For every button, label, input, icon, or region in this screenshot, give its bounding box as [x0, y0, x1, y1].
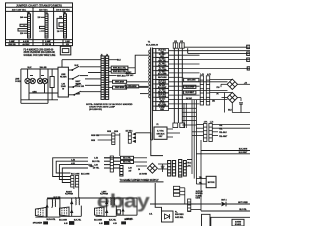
right edge terminations	[247, 58, 250, 61]
wires to motor	[196, 179, 206, 184]
svg-text:(SOLENOID): (SOLENOID)	[89, 109, 102, 111]
relay contact boxes	[174, 186, 185, 204]
svg-text:C-54: C-54	[71, 158, 75, 161]
svg-text:FILTER: FILTER	[60, 77, 67, 79]
top right wire 2	[188, 52, 250, 54]
svg-text:BLK-YEL: BLK-YEL	[239, 209, 246, 211]
pins left of 5V row	[120, 166, 123, 177]
svg-text:94-0-3296-00: 94-0-3296-00	[146, 44, 159, 47]
svg-text:WHT-BLK: WHT-BLK	[117, 75, 126, 77]
ladder verticals	[182, 100, 201, 211]
svg-text:1/8 YEL: 1/8 YEL	[93, 168, 100, 170]
svg-text:32V SB: 32V SB	[45, 44, 52, 46]
svg-text:BLK-GRN: BLK-GRN	[71, 173, 80, 175]
svg-text:MOT B RED: MOT B RED	[238, 202, 248, 204]
svg-text:CHART FOR 25V/6 LAMP: CHART FOR 25V/6 LAMP	[89, 106, 116, 109]
bridge wires	[210, 79, 250, 112]
svg-text:BLK: BLK	[117, 60, 122, 62]
svg-text:GRN: GRN	[32, 91, 37, 93]
svg-text:4-20: 4-20	[71, 162, 75, 165]
svg-text:GRN: GRN	[107, 131, 112, 133]
5V row labels	[121, 156, 134, 159]
svg-text:BLK-R-YEL: BLK-R-YEL	[47, 219, 56, 221]
svg-text:25V/6 VERSION 240-12345-00: 25V/6 VERSION 240-12345-00	[24, 51, 56, 54]
svg-text:GRN: GRN	[90, 166, 95, 168]
svg-text:BLK-GRN: BLK-GRN	[239, 149, 248, 151]
svg-text:LOCK SW: LOCK SW	[76, 86, 85, 88]
svg-text:8 AM: 8 AM	[65, 40, 70, 43]
wires from J5 to right edge	[192, 125, 250, 136]
fuse block columns	[200, 76, 203, 105]
svg-text:181: 181	[212, 101, 215, 103]
svg-text:—: —	[23, 24, 25, 26]
svg-text:A-20: A-20	[64, 222, 68, 225]
filter capacitor C2	[161, 166, 165, 168]
svg-text:110: 110	[57, 31, 60, 33]
svg-text:BLK-GRN: BLK-GRN	[81, 173, 90, 175]
svg-text:BLK-YEL: BLK-YEL	[92, 161, 101, 163]
connector J10	[112, 133, 115, 145]
svg-text:WHT-BLK-YEL: WHT-BLK-YEL	[113, 67, 127, 69]
svg-text:WHT-BRN: WHT-BRN	[115, 81, 125, 83]
svg-text:BLU-YEL: BLU-YEL	[123, 162, 132, 164]
svg-text:F8: F8	[216, 94, 218, 96]
svg-text:BOARD: BOARD	[235, 223, 242, 226]
svg-text:C-54: C-54	[94, 157, 98, 160]
svg-text:8 AMP: 8 AMP	[45, 40, 51, 43]
on/off and interlock switches	[68, 66, 101, 95]
svg-text:24 KOHM: 24 KOHM	[139, 173, 147, 176]
svg-text:4-P1: 4-P1	[207, 73, 211, 76]
svg-text:YEL: YEL	[199, 182, 202, 184]
bridge rectifier BR1	[227, 79, 237, 89]
svg-text:BLU-YEL: BLU-YEL	[123, 158, 132, 160]
svg-text:BLU-YEL: BLU-YEL	[124, 219, 131, 221]
svg-text:240 / 220 VAC: 240 / 220 VAC	[12, 9, 27, 12]
motor box	[206, 176, 216, 187]
low tap wires	[151, 129, 180, 140]
svg-text:F1-4 MARKED 250-12995-00: F1-4 MARKED 250-12995-00	[24, 48, 55, 51]
svg-text:120: 120	[38, 17, 41, 19]
connector columns right of BR3	[168, 161, 171, 177]
bridge rectifier BR3	[147, 163, 157, 173]
fuse detail box	[60, 46, 71, 55]
svg-text:100: 100	[59, 17, 62, 19]
RIGHT FLIPPER circuit	[60, 198, 82, 216]
svg-text:1/4A SB: 1/4A SB	[39, 66, 47, 69]
top right wire 1	[184, 46, 250, 48]
motor drive row	[150, 204, 250, 211]
svg-text:BLK: BLK	[75, 65, 80, 67]
flipper connector	[71, 176, 74, 188]
svg-text:4-20: 4-20	[113, 222, 116, 225]
transformer primary winding	[149, 50, 151, 98]
right wires to edge	[187, 151, 250, 160]
svg-text:SCHEM. FOR 120V 60HZ LINE: SCHEM. FOR 120V 60HZ LINE	[24, 55, 56, 57]
svg-text:5.7 VAC: 5.7 VAC	[157, 130, 164, 133]
LEFT FLIPPER circuit	[95, 198, 117, 216]
svg-text:115 VAC: 115 VAC	[126, 74, 134, 77]
AC line input top wire	[21, 69, 58, 103]
svg-text:BLU-GRN: BLU-GRN	[186, 87, 195, 89]
svg-text:WHT-BRN: WHT-BRN	[115, 87, 125, 89]
line cord plug circles	[25, 69, 48, 84]
jumper chart table	[6, 3, 73, 46]
transformer secondary tap strip	[153, 49, 156, 111]
connector J9	[110, 156, 113, 172]
svg-text:CORD: CORD	[15, 81, 21, 83]
svg-text:FLIPPER: FLIPPER	[100, 194, 109, 196]
svg-text:F10: F10	[216, 87, 219, 89]
svg-text:GRN: GRN	[114, 131, 119, 133]
svg-text:0: 0	[40, 31, 41, 33]
svg-text:240: 240	[20, 16, 23, 19]
svg-text:A-20: A-20	[99, 222, 103, 225]
svg-text:4A 250V: 4A 250V	[23, 43, 31, 46]
svg-text:100 & 110 VAC: 100 & 110 VAC	[56, 9, 70, 12]
svg-text:F1: F1	[156, 124, 158, 126]
bottom right cabinet boxes	[202, 214, 251, 226]
5V row wires	[134, 158, 168, 172]
svg-text:YEL-WHT: YEL-WHT	[219, 136, 228, 138]
svg-text:MOT A: MOT A	[221, 199, 227, 202]
svg-text:GRY-BLK: GRY-BLK	[156, 133, 165, 135]
svg-text:BLU-GRN: BLU-GRN	[94, 219, 103, 221]
stepped wire to bottom	[136, 133, 163, 156]
svg-text:4-P1: 4-P1	[204, 121, 208, 124]
wire to rectifier box	[155, 183, 161, 211]
svg-text:BLK-YEL: BLK-YEL	[74, 220, 81, 222]
svg-text:BLU-GRN: BLU-GRN	[59, 219, 68, 221]
svg-text:+12: +12	[244, 82, 247, 84]
speaker cluster	[35, 207, 46, 217]
transformer low tap box	[154, 127, 167, 139]
bridge rectifier BR2	[227, 92, 237, 102]
svg-text:C.B.: C.B.	[149, 214, 153, 216]
svg-text:FLIPPER: FLIPPER	[65, 194, 74, 196]
svg-text:WHT-BRN: WHT-BRN	[158, 77, 167, 79]
bottom connector of bus	[173, 123, 185, 128]
wires to J1	[62, 60, 101, 86]
vertical bus wires from J12/J13	[174, 48, 182, 123]
transformer tap labels	[156, 49, 169, 53]
motor diode D20	[222, 202, 227, 207]
svg-text:0 VAC: 0 VAC	[126, 71, 132, 74]
svg-text:4-20: 4-20	[94, 163, 98, 166]
cluster bus wire	[47, 197, 137, 199]
svg-text:00: 00	[62, 89, 64, 91]
transformer T1 core	[151, 48, 153, 141]
svg-text:NOTE: JUMPER FOR 13 VAC/6VDC M: NOTE: JUMPER FOR 13 VAC/6VDC MARKED	[86, 103, 133, 106]
svg-text:GRY-GRN: GRY-GRN	[187, 80, 196, 82]
svg-text:BLK: BLK	[28, 67, 33, 69]
svg-text:120 VAC: 120 VAC	[39, 9, 48, 12]
secondary distribution wires	[169, 51, 251, 109]
nested wire loops	[53, 158, 120, 183]
svg-text:4-20: 4-20	[128, 166, 131, 169]
svg-text:SPEAKER: SPEAKER	[33, 222, 43, 225]
svg-text:4 A SB: 4 A SB	[23, 40, 29, 43]
rectifier box	[162, 211, 174, 222]
svg-text:GRN-BRN: GRN-BRN	[127, 86, 137, 88]
svg-text:24 VAC: 24 VAC	[186, 97, 193, 100]
primary input stepped wire	[126, 55, 149, 93]
svg-text:GRN-YEL: GRN-YEL	[91, 135, 100, 137]
svg-text:YEL-BLK: YEL-BLK	[219, 132, 227, 134]
svg-text:GRN: GRN	[91, 140, 96, 142]
svg-text:220: 220	[20, 33, 23, 35]
svg-text:5 VDC: 5 VDC	[186, 162, 192, 164]
svg-text:BLK-WHT: BLK-WHT	[239, 152, 248, 154]
svg-text:WHT-BLK-YEL: WHT-BLK-YEL	[113, 71, 127, 73]
aux coil cluster	[117, 198, 137, 216]
speaker diode	[46, 199, 48, 217]
mid wire labels	[184, 78, 199, 81]
speaker relay coil	[35, 199, 60, 217]
svg-text:BLU-WHT: BLU-WHT	[186, 92, 195, 94]
svg-text:YEL: YEL	[199, 177, 202, 179]
svg-text:BLK-YEL: BLK-YEL	[109, 220, 116, 222]
connector pins x188	[188, 199, 191, 212]
svg-text:MOTOR: MOTOR	[208, 182, 215, 184]
svg-text:GATE REL: GATE REL	[175, 216, 183, 219]
svg-text:24: 24	[138, 168, 140, 171]
line filter box	[58, 67, 68, 97]
svg-text:250V SB: 250V SB	[8, 44, 16, 46]
svg-text:(+5V): (+5V)	[186, 166, 191, 168]
wires labels into J9	[104, 158, 120, 168]
svg-text:5 AMP: 5 AMP	[9, 40, 15, 43]
varistor V1	[50, 77, 54, 88]
filter cap C1	[239, 103, 243, 113]
svg-text:JUMPER CHART (TRANSFORMER): JUMPER CHART (TRANSFORMER)	[16, 4, 62, 8]
